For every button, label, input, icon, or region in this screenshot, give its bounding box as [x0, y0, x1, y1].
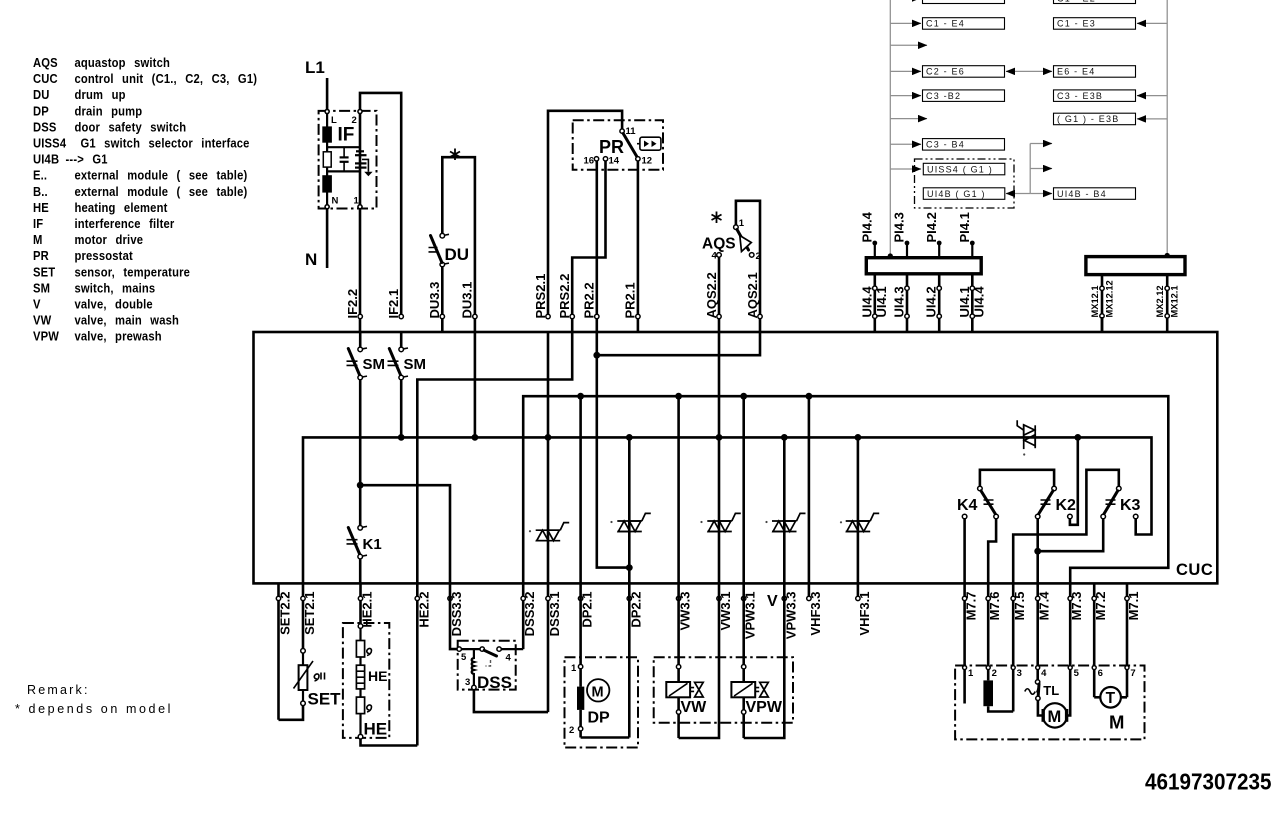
IF pin circles redraw: [325, 110, 362, 209]
dashdot group box UISS4/UI4B: [915, 159, 1015, 208]
DSS pin 3 circle: [472, 685, 476, 689]
svg-text:pressostat: pressostat: [74, 248, 132, 263]
wire VHF3.1: [857, 437, 860, 583]
pin DSS3.1: [546, 583, 562, 712]
pin DP2.2: [627, 592, 643, 628]
svg-text:K2: K2: [1056, 497, 1077, 514]
box C3 -B2: [923, 90, 1005, 102]
svg-text:4: 4: [1041, 668, 1047, 679]
wire AQS bridge: [736, 201, 760, 332]
sensor SET (temperature): [279, 649, 342, 720]
wire UI4.4 with connector pins: [859, 274, 889, 332]
svg-text:M7.3: M7.3: [1069, 592, 1084, 621]
wire DU3.3 up to switch: [441, 267, 444, 333]
wire VW3.3: [677, 396, 680, 583]
wire IF2.1 into SM2: [400, 332, 403, 347]
connector bar MX12: [1086, 257, 1185, 275]
wire arrow right bus to C1-E3: [1137, 22, 1167, 24]
TL bottom contact: [1036, 696, 1040, 700]
svg-text:7: 7: [1130, 668, 1135, 679]
wire PR pin 12 to PR2.1: [637, 161, 640, 332]
IF wire L internal: [326, 112, 328, 207]
svg-text:DSS3.2: DSS3.2: [522, 592, 537, 637]
pin 6: [1092, 666, 1096, 670]
tacho circle T: [1100, 687, 1121, 708]
junction H3/K2 branch: [1074, 434, 1081, 441]
valve double V box: [654, 657, 793, 722]
svg-text:1: 1: [571, 663, 577, 674]
junction H3/SM2: [398, 434, 405, 441]
SM1 actuator marks: [347, 361, 358, 365]
VW connector circle bottom: [676, 710, 680, 714]
PR sensor box: [637, 137, 661, 150]
box C3 - E3B: [1054, 90, 1136, 102]
pin M7.1: [1125, 583, 1141, 697]
pin DP2.1: [578, 592, 594, 628]
wire DP bottom U to DP2.2: [581, 736, 630, 739]
wire K2 left contact to M7.4: [1036, 519, 1039, 584]
pin PRS2.1: [533, 274, 550, 319]
SET upper connector circle: [301, 649, 306, 654]
wire arrow row2 (no box): [890, 44, 927, 46]
svg-text:UI4.1: UI4.1: [957, 286, 972, 317]
box UISS4 ( G1 ): [923, 163, 1005, 175]
VW coil: [666, 682, 690, 697]
svg-text:UISS4 ( G1 ): UISS4 ( G1 ): [927, 164, 993, 174]
wire IF pin1 down to IF2.2: [359, 112, 362, 333]
svg-text:SET2.2: SET2.2: [278, 592, 293, 635]
IF internal top link: [327, 146, 360, 148]
svg-text:HE: HE: [33, 200, 49, 215]
svg-text:heating element: heating element: [74, 200, 167, 215]
pin DU3.1: [460, 282, 477, 319]
svg-text:door safety switch: door safety switch: [74, 120, 186, 135]
K4 top contact: [978, 486, 983, 491]
wire AQS pin 4 to AQS2.2: [718, 257, 721, 332]
svg-text:L: L: [331, 115, 337, 126]
svg-text:N: N: [305, 250, 317, 269]
pin VW3.1: [717, 592, 733, 631]
wire arrow riser row6: [1030, 143, 1052, 145]
svg-text:valve, double: valve, double: [74, 297, 152, 312]
K4 right lower contact: [994, 514, 999, 519]
svg-text:C2 - E6: C2 - E6: [926, 67, 965, 77]
IF pin 2 circle: [358, 110, 362, 114]
wire arrow C1-E4: [890, 22, 921, 24]
svg-text:IF: IF: [338, 125, 355, 146]
pin PI4.3: [892, 212, 910, 258]
svg-text:N: N: [332, 196, 339, 207]
svg-text:switch, mains: switch, mains: [74, 281, 155, 296]
wire K1 to HE2.1: [359, 559, 362, 584]
SM1 upper contact: [358, 347, 363, 352]
DP pin 2 circle: [578, 727, 582, 731]
DU actuator marks: [429, 248, 438, 252]
wire UI4.3: [892, 274, 910, 332]
remark asterisk AQS: [712, 212, 722, 224]
control unit CUC box: [254, 332, 1218, 583]
svg-text:K1: K1: [363, 536, 382, 553]
remark note: [15, 683, 173, 716]
wire SET bottom U: [279, 706, 304, 720]
svg-text:2: 2: [756, 251, 761, 262]
DSS blade: [484, 650, 496, 656]
pin AQS2.1: [745, 272, 762, 318]
node bus right (external module bus): [1166, 0, 1168, 254]
HE fuse1 theta: [367, 648, 372, 655]
pin VPW3.3: [782, 592, 798, 640]
junction SM1/DSS3.3: [357, 482, 364, 489]
wire VPW3.1: [742, 396, 745, 583]
switch SM 1: [347, 332, 386, 380]
pin VPW3.1: [742, 592, 758, 640]
HE fuse 2: [356, 697, 364, 714]
svg-text:11: 11: [626, 126, 637, 137]
svg-text:MX12.1: MX12.1: [1090, 285, 1100, 317]
svg-text:PR2.2: PR2.2: [582, 282, 597, 318]
svg-text:SET: SET: [308, 690, 342, 709]
DU lower contact: [440, 262, 445, 267]
wire PRS2.2 jog to HE2.2: [417, 332, 572, 583]
wire DSS3.3 into DSS: [450, 583, 457, 649]
svg-text:PRS2.1: PRS2.1: [533, 274, 548, 319]
wire PRS2.1 to PR pin 11: [548, 111, 622, 317]
svg-text:SET: SET: [33, 264, 56, 279]
connector bar UI4: [866, 258, 981, 274]
pin PR2.2: [582, 282, 599, 318]
PR pin 12 circle: [636, 157, 640, 161]
svg-text:SM: SM: [33, 281, 50, 296]
wire DP2.2 line: [628, 437, 631, 583]
wire DP2.1: [579, 396, 582, 583]
wire K2 branch: [1070, 437, 1078, 524]
pin PI4.2: [924, 212, 942, 258]
junction H2/VPW3.1: [740, 393, 747, 400]
IF inductor 2: [322, 175, 332, 192]
svg-text:1: 1: [739, 218, 745, 229]
svg-text:V: V: [767, 593, 778, 610]
svg-text:E6 - E4: E6 - E4: [1057, 67, 1095, 77]
svg-text:motor drive: motor drive: [74, 232, 143, 247]
wire DSS pin3 bottom U to DSS3.1: [474, 690, 548, 712]
svg-text:4: 4: [712, 251, 718, 262]
svg-text:M7.7: M7.7: [964, 592, 979, 621]
pin PI4.4: [860, 211, 878, 257]
SM2 lower contact: [399, 375, 404, 380]
pin M7.5: [1011, 583, 1027, 711]
svg-text:CUC: CUC: [33, 71, 58, 86]
svg-text:---> G1: ---> G1: [66, 152, 108, 167]
svg-text:C3 - B4: C3 - B4: [926, 140, 965, 150]
wire L1 to IF pin L: [326, 78, 329, 111]
wire IF2.2 into SM1: [359, 332, 362, 347]
box UI4B - B4: [1054, 188, 1136, 200]
wire VHF3.3: [808, 396, 811, 583]
svg-text:AQS2.1: AQS2.1: [745, 272, 760, 318]
svg-text:2: 2: [992, 668, 997, 679]
junction dot left bus at UI4 connector: [888, 253, 893, 258]
IF resistor: [323, 152, 331, 167]
pin M7.3: [1068, 583, 1084, 715]
junction H2/VHF3.3: [806, 393, 813, 400]
svg-text:3: 3: [465, 677, 470, 688]
DU blade: [431, 236, 442, 263]
K4-K2 top bridge wire: [980, 470, 1054, 487]
wire UI4B(G1) to UI4B-B4 double arrow: [1006, 193, 1030, 195]
wire K4 right contact to M7.6: [988, 519, 996, 584]
svg-text:M7.1: M7.1: [1126, 592, 1141, 621]
svg-text:PRS2.2: PRS2.2: [557, 274, 572, 319]
K2 blade: [1039, 491, 1053, 514]
svg-text:B..: B..: [33, 184, 48, 199]
IF pin 1 circle: [358, 205, 362, 209]
TL squiggle: [1025, 689, 1035, 695]
remark asterisk DU: [450, 149, 460, 161]
junction H3/DP2.2: [626, 434, 633, 441]
box C2 - E6: [923, 66, 1005, 78]
svg-text:VPW: VPW: [746, 699, 783, 716]
pin VW3.3: [676, 592, 692, 631]
svg-text:VW: VW: [681, 699, 708, 716]
svg-text:DU3.1: DU3.1: [460, 282, 475, 319]
heating element HE box: [343, 623, 389, 738]
svg-text:M7.5: M7.5: [1012, 592, 1027, 621]
DP circuit: [569, 583, 629, 737]
DSS circuit: [450, 583, 548, 712]
svg-text:SET2.1: SET2.1: [302, 592, 317, 635]
box row0 left (cut off): [923, 0, 1005, 4]
PR blade 11-12: [623, 134, 637, 157]
junction dot right bus at MX12 connector: [1165, 253, 1170, 258]
svg-text:DU: DU: [445, 245, 470, 264]
relay contact K2: [1034, 486, 1103, 583]
wire PR pin 14 to PRS2.2: [572, 161, 605, 332]
svg-text:DU3.3: DU3.3: [427, 282, 442, 319]
pin AQS2.2: [704, 272, 721, 318]
VPW connector circle bottom: [742, 710, 746, 714]
svg-text:12: 12: [642, 156, 653, 167]
svg-text:M7.6: M7.6: [987, 592, 1002, 621]
wire IF N to node N: [326, 209, 329, 269]
wire VPW3.3: [783, 437, 786, 583]
pin IF2.1: [386, 289, 403, 319]
svg-text:DSS: DSS: [477, 673, 512, 692]
wire VW3.3 into valve: [677, 583, 680, 682]
wire arrow row5 (no box): [890, 118, 927, 120]
HE fuse2 theta: [367, 705, 372, 712]
wire DU bridge to DU3.1: [442, 157, 475, 332]
svg-text:4: 4: [506, 653, 512, 664]
wire PR2.2 down with jog to DP2.2 line: [597, 332, 630, 568]
triac on DSS3.1 line: [536, 523, 570, 541]
connector table boxes: [915, 0, 1136, 208]
triac on H3 bus (rotated): [1017, 420, 1035, 449]
junction H2/DP2.1: [577, 393, 584, 400]
wire winding U to pin 3: [988, 706, 1013, 711]
svg-text:* depends on model: * depends on model: [15, 702, 173, 716]
svg-text:UI4.3: UI4.3: [892, 286, 907, 317]
DP pin 1 circle: [578, 664, 582, 668]
svg-text:VW: VW: [33, 313, 52, 328]
DSS coil branch: [472, 649, 474, 685]
pin HE2.1: [358, 583, 374, 627]
wire H2 bus: [523, 396, 1168, 583]
pin SET2.2: [276, 583, 292, 719]
DP motor circle: [587, 679, 609, 701]
wire VW bottom U to VW3.1: [679, 583, 719, 738]
svg-text:external module ( see table): external module ( see table): [74, 168, 247, 183]
wire M7.1 to tacho: [1121, 696, 1127, 699]
TL blade: [1037, 684, 1041, 696]
svg-text:VHF3.1: VHF3.1: [857, 592, 872, 636]
svg-text:MX12.1: MX12.1: [1170, 285, 1180, 317]
K4 actuator marks: [984, 500, 994, 504]
IF arrester: [355, 151, 373, 176]
HE circuit: [356, 624, 417, 746]
svg-text:PI4.3: PI4.3: [892, 212, 907, 242]
junction H3/VW3.1: [716, 434, 723, 441]
wire VPW3.1 into valve: [742, 583, 745, 682]
wire arrow right bus to C3-E3B: [1137, 95, 1167, 97]
svg-text:2: 2: [569, 725, 574, 736]
PR pin 14 circle: [603, 157, 607, 161]
K2 left lower contact: [1035, 514, 1040, 519]
svg-text:UI4.2: UI4.2: [924, 286, 939, 317]
wire TL to motor: [1038, 701, 1043, 716]
svg-text:Remark:: Remark:: [27, 683, 90, 697]
svg-text:MX12.12: MX12.12: [1105, 280, 1115, 317]
pin 7: [1125, 666, 1129, 670]
junction DP2.2 jog: [626, 564, 633, 571]
svg-text:C1 - E4: C1 - E4: [926, 19, 965, 29]
svg-text:5: 5: [1074, 668, 1080, 679]
svg-text:M7.4: M7.4: [1037, 591, 1052, 621]
wire HE bottom U: [361, 739, 418, 746]
IF inductor 1: [322, 126, 332, 142]
svg-text:C3 - E3B: C3 - E3B: [1057, 91, 1103, 101]
junction H3/VPW3.3: [781, 434, 788, 441]
aquastop switch AQS: [702, 201, 761, 332]
SET thermistor diagonal: [294, 661, 314, 689]
K4 left lower contact: [962, 514, 967, 519]
wire MX2.12/MX12.1: [1155, 275, 1180, 332]
K2 top contact: [1052, 486, 1057, 491]
svg-text:16: 16: [584, 156, 595, 167]
wire junction to DSS3.3: [360, 485, 450, 583]
svg-text:DU: DU: [33, 87, 50, 102]
box C1 - E3: [1054, 18, 1136, 30]
pin 3: [1011, 666, 1015, 670]
pin PR2.1: [623, 282, 640, 318]
box E6 - E4: [1054, 66, 1136, 78]
wire SM2 to H3 bus: [400, 380, 403, 438]
svg-text:aquastop switch: aquastop switch: [74, 55, 170, 70]
SET lower connector circle: [301, 701, 306, 706]
K3 top contact: [1117, 486, 1122, 491]
switch DU: [429, 157, 475, 332]
svg-text:C3 -B2: C3 -B2: [926, 91, 961, 101]
pin 2: [986, 666, 990, 670]
VW valve bowtie: [695, 682, 704, 697]
pin DU3.3: [427, 282, 444, 319]
AQS pin 4 circle: [717, 253, 722, 258]
svg-text:6: 6: [1098, 668, 1103, 679]
relay contact K3: [1013, 470, 1140, 584]
K2 actuator marks: [1041, 500, 1051, 504]
svg-text:HE: HE: [364, 720, 388, 739]
K1 blade: [348, 528, 360, 555]
DSS pin 5 circle: [457, 647, 461, 651]
VPW valve bowtie: [760, 682, 769, 697]
VPW connector circle top: [742, 665, 746, 669]
wire arrow UISS4: [890, 168, 921, 170]
switch K1: [347, 526, 382, 584]
svg-text:drum up: drum up: [74, 87, 125, 102]
motor box pin circles and numbers: [963, 666, 1136, 679]
svg-text:DP: DP: [33, 103, 49, 118]
wire IF pin2 over to IF2.1: [360, 93, 401, 317]
wire arrow C2-E6: [890, 70, 921, 72]
svg-text:drain pump: drain pump: [74, 103, 142, 118]
svg-text:CUC: CUC: [1176, 561, 1213, 579]
box ( G1 ) - E3B: [1054, 113, 1136, 125]
drain pump DP box: [565, 657, 639, 747]
pin DSS3.2: [521, 583, 537, 649]
svg-text:UI4.1: UI4.1: [874, 286, 889, 317]
svg-text:VHF3.3: VHF3.3: [808, 592, 823, 636]
DSS link dashes: [486, 660, 491, 666]
box C3 - B4: [923, 139, 1005, 151]
HE bottom connector circle: [358, 734, 363, 739]
wire DP2.2 through box: [628, 583, 631, 737]
svg-text:K4: K4: [957, 497, 978, 514]
pin 4: [1036, 666, 1040, 670]
wire PRS2.1 to DSS3.1: [547, 332, 550, 583]
PR pin 11 circle: [620, 129, 624, 133]
junction H2/VW3.3: [675, 393, 682, 400]
svg-text:3: 3: [1017, 668, 1022, 679]
junction H3/PRS2.1: [545, 434, 552, 441]
pin DSS3.3: [448, 592, 464, 637]
switch SM 2: [388, 332, 427, 437]
box UI4B ( G1 ): [923, 188, 1005, 200]
AQS pin 2 circle: [749, 253, 754, 258]
wire arrow C3-B4: [890, 143, 921, 145]
svg-text:( G1 ) - E3B: ( G1 ) - E3B: [1057, 114, 1119, 124]
svg-text:AQS: AQS: [33, 55, 58, 70]
svg-text:PR: PR: [599, 137, 624, 157]
svg-text:HE: HE: [368, 668, 387, 684]
svg-text:IF2.1: IF2.1: [386, 289, 401, 319]
svg-text:VPW: VPW: [33, 329, 59, 344]
svg-text:14: 14: [609, 156, 620, 167]
DSS top row wire: [461, 648, 480, 650]
wire M7.2 to tacho: [1094, 696, 1100, 699]
svg-text:PR: PR: [33, 248, 49, 263]
wire DP2.1 into DP: [579, 583, 582, 686]
svg-text:PI4.4: PI4.4: [860, 211, 875, 242]
svg-text:IF2.2: IF2.2: [345, 289, 360, 319]
relay contact K4: [957, 470, 1054, 584]
svg-text:DSS3.1: DSS3.1: [547, 592, 562, 637]
SM2 actuator marks: [388, 361, 399, 365]
triac on VPW3.3 line: [772, 513, 806, 531]
svg-text:C1 - E3: C1 - E3: [1057, 19, 1096, 29]
VPW coil: [731, 682, 755, 697]
svg-text:SM: SM: [404, 356, 427, 373]
pin 1: [963, 666, 967, 670]
IF pin L circle: [325, 110, 329, 114]
